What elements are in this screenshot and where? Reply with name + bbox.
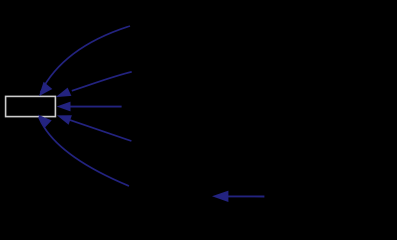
arrowhead C xyxy=(57,102,71,112)
wire: arrow E curve (bottom) xyxy=(39,117,129,186)
wire: arrow B curve (upper middle) xyxy=(72,72,132,91)
node box (effect rectangle) xyxy=(6,96,56,116)
arrowhead B xyxy=(56,88,72,98)
arrowhead F xyxy=(212,191,228,202)
wire: arrow C line (horizontal middle) xyxy=(66,106,122,108)
arrowhead A xyxy=(39,82,52,96)
wire: arrow F line (legend, bottom right) xyxy=(216,195,264,197)
wire: arrow D line (lower middle) xyxy=(66,119,131,141)
arrowhead D xyxy=(57,115,72,125)
arrowhead E xyxy=(38,115,52,129)
wire: arrow A curve (top) xyxy=(41,26,131,93)
